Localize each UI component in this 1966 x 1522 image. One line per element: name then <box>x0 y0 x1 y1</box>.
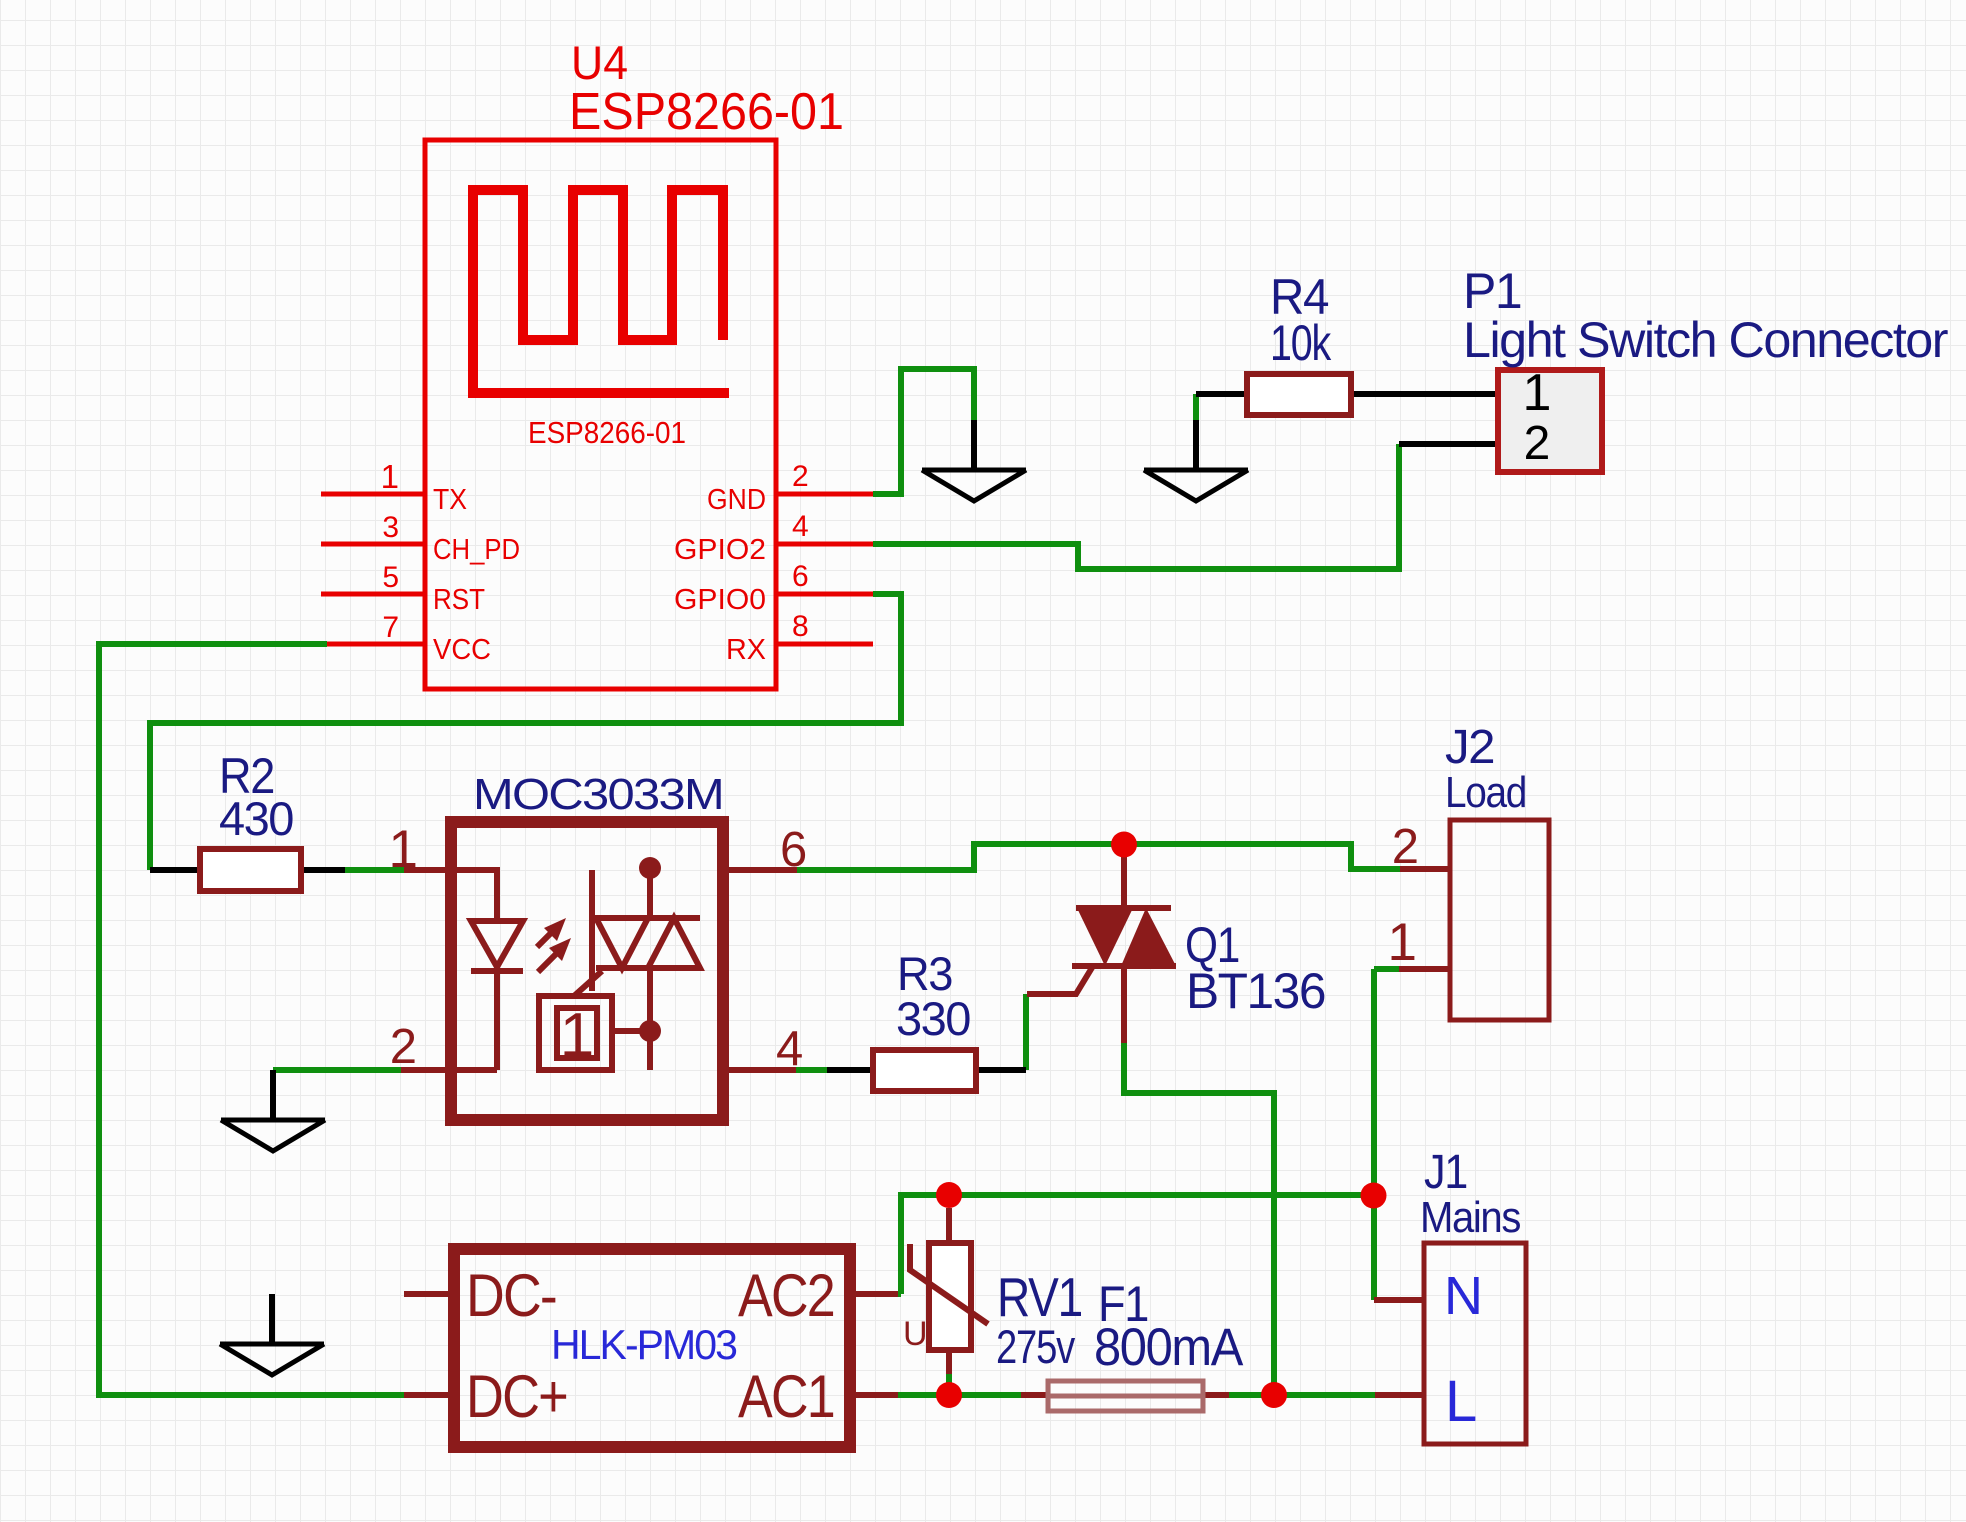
svg-text:7: 7 <box>382 611 399 644</box>
svg-text:GPIO0: GPIO0 <box>674 584 766 616</box>
svg-text:1: 1 <box>389 820 418 879</box>
svg-text:Load: Load <box>1445 768 1526 817</box>
svg-text:N: N <box>1444 1266 1483 1326</box>
svg-text:2: 2 <box>1392 820 1419 874</box>
svg-text:4: 4 <box>792 510 809 543</box>
svg-text:2: 2 <box>390 1020 417 1074</box>
svg-text:TX: TX <box>433 484 467 516</box>
svg-text:U4: U4 <box>571 36 628 89</box>
svg-text:P1: P1 <box>1463 263 1521 319</box>
svg-text:BT136: BT136 <box>1186 963 1325 1019</box>
svg-text:1: 1 <box>1523 364 1552 422</box>
svg-text:DC-: DC- <box>466 1262 556 1329</box>
svg-text:MOC3033M: MOC3033M <box>473 770 723 819</box>
svg-text:6: 6 <box>780 823 807 877</box>
svg-text:U: U <box>903 1315 928 1353</box>
svg-text:ESP8266-01: ESP8266-01 <box>569 83 844 141</box>
svg-text:AC1: AC1 <box>738 1363 834 1430</box>
svg-text:1: 1 <box>381 458 399 495</box>
svg-text:330: 330 <box>896 992 970 1045</box>
svg-text:HLK-PM03: HLK-PM03 <box>551 1321 737 1368</box>
svg-text:3: 3 <box>382 511 399 544</box>
svg-text:DC+: DC+ <box>466 1363 567 1430</box>
svg-text:800mA: 800mA <box>1094 1318 1244 1377</box>
svg-text:4: 4 <box>776 1022 803 1076</box>
svg-text:AC2: AC2 <box>738 1262 834 1329</box>
svg-text:Light Switch Connector: Light Switch Connector <box>1463 312 1948 368</box>
svg-text:J2: J2 <box>1445 721 1494 774</box>
svg-text:2: 2 <box>1524 417 1551 470</box>
svg-text:RST: RST <box>433 584 485 616</box>
svg-text:1: 1 <box>1388 913 1417 972</box>
svg-text:Mains: Mains <box>1420 1193 1520 1242</box>
svg-text:RX: RX <box>726 634 766 666</box>
svg-text:GPIO2: GPIO2 <box>674 534 766 566</box>
svg-text:6: 6 <box>792 560 809 593</box>
svg-text:8: 8 <box>792 610 809 643</box>
svg-text:CH_PD: CH_PD <box>433 534 520 566</box>
svg-text:L: L <box>1445 1369 1477 1434</box>
svg-text:J1: J1 <box>1424 1146 1467 1199</box>
svg-text:RV1: RV1 <box>997 1266 1082 1328</box>
svg-text:430: 430 <box>219 792 293 845</box>
svg-text:VCC: VCC <box>433 634 491 666</box>
svg-text:2: 2 <box>792 460 809 493</box>
svg-text:1: 1 <box>560 1001 594 1070</box>
svg-text:ESP8266-01: ESP8266-01 <box>528 415 686 450</box>
svg-text:5: 5 <box>382 561 399 594</box>
svg-text:275v: 275v <box>996 1320 1076 1373</box>
svg-text:GND: GND <box>707 484 766 516</box>
svg-text:10k: 10k <box>1270 315 1332 371</box>
